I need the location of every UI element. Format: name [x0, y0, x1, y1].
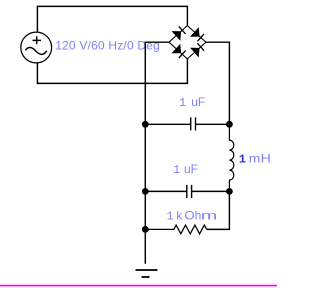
svg-text:1kOhm: 1kOhm	[167, 209, 218, 224]
resistor R1 zigzag	[145, 225, 206, 234]
diode bridge U1 diamond	[169, 26, 206, 59]
AC source plus sign	[33, 36, 42, 44]
inductor L1 coil	[229, 124, 233, 191]
svg-text:1: 1	[239, 152, 246, 166]
svg-text:1uF: 1uF	[173, 162, 198, 177]
wire top run: source top to bridge top	[37, 6, 187, 32]
svg-text:1uF: 1uF	[179, 95, 205, 110]
diode D1 top-left (anode left, cathode top)	[172, 27, 186, 41]
AC source V1 circle	[21, 32, 52, 63]
svg-text:mH: mH	[249, 151, 271, 165]
node junction dot mid-right	[226, 188, 233, 195]
magenta separator line	[0, 285, 277, 287]
capacitor C1 plates	[191, 117, 196, 130]
ground bar long	[136, 269, 158, 271]
ground bar short	[142, 276, 150, 278]
AC source sine wave	[25, 47, 46, 54]
svg-text:120 V/60 Hz/0 Deg: 120 V/60 Hz/0 Deg	[55, 38, 160, 52]
node junction dot resistor-left	[142, 226, 149, 233]
node junction dot mid-left	[142, 188, 149, 195]
wire DC plus rail: bridge right vertex down to cap row	[206, 42, 229, 124]
diode D2 top-right (anode top, cathode right)	[190, 27, 204, 41]
node junction dot top-right	[226, 121, 233, 128]
wire DC minus rail: bridge left vertex down to ground	[145, 42, 169, 264]
diode D4 bottom-right (anode bottom, cathode right)	[190, 43, 204, 57]
node junction dot top-left	[142, 121, 149, 128]
wire R1 right vertical	[207, 191, 230, 229]
capacitor C1 leads	[145, 123, 229, 125]
wire bottom run: source bottom to bridge bottom	[37, 59, 187, 84]
capacitor C2 leads	[145, 190, 229, 192]
capacitor C2 plates	[187, 185, 192, 198]
diode D3 bottom-left (anode left, cathode bottom)	[172, 44, 186, 58]
